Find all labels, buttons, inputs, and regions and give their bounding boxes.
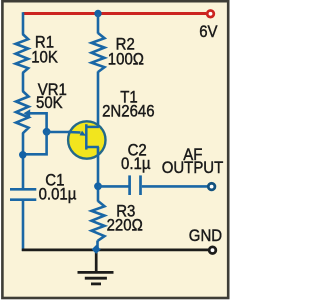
svg-text:OUTPUT: OUTPUT [162, 159, 224, 177]
svg-text:10K: 10K [31, 49, 58, 67]
wire R2 to T1 base2 [97, 72, 100, 128]
wire node to C2 [98, 185, 129, 188]
wire supply rail to R2 [97, 14, 100, 34]
transistor T1 base1 lead [86, 146, 99, 149]
wire VR1 wiper to emitter node [30, 113, 47, 132]
wire R1 to VR1 [22, 73, 25, 92]
transistor T1 base bar [85, 124, 88, 149]
wire ground rail [22, 248, 208, 251]
terminal 6V [207, 11, 214, 18]
junction emitter node [43, 128, 51, 136]
svg-text:0.01µ: 0.01µ [39, 186, 77, 204]
svg-text:2N2646: 2N2646 [102, 103, 155, 121]
capacitor C1 [10, 188, 36, 191]
wire supply rail to R1 [22, 12, 25, 34]
terminal AF OUTPUT [208, 183, 215, 190]
junction ground node [92, 245, 101, 254]
capacitor C2 [128, 175, 131, 195]
junction C2 tap node [94, 182, 102, 190]
wire C1 bottom to ground rail [22, 201, 25, 251]
wire C2 to AF output terminal [142, 185, 207, 188]
wire R3 to ground rail [96, 241, 99, 251]
svg-text:220Ω: 220Ω [107, 217, 143, 235]
terminal GND [209, 247, 216, 254]
junction on supply rail [94, 10, 101, 17]
junction C1 node [19, 151, 27, 159]
transistor T1 body [68, 121, 105, 158]
resistor R1 [16, 34, 29, 73]
wire emitter node down-left to C1 node [23, 132, 47, 155]
svg-text:100Ω: 100Ω [108, 51, 144, 69]
ground [95, 250, 98, 273]
transistor T1 emitter arrow [80, 131, 86, 136]
svg-text:GND: GND [189, 227, 222, 245]
svg-text:6V: 6V [199, 23, 218, 41]
wire VR1 bottom to C1 [22, 133, 25, 188]
resistor R2 [92, 33, 105, 72]
potentiometer VR1 [16, 91, 29, 134]
wire 6V supply rail [23, 12, 206, 15]
transistor T1 base2 lead [86, 126, 99, 129]
transistor T1 emitter lead [68, 131, 81, 134]
resistor R3 [92, 201, 105, 241]
svg-text:0.1µ: 0.1µ [121, 155, 150, 173]
svg-text:50K: 50K [36, 94, 63, 112]
VR1 wiper arrow [24, 109, 31, 117]
wire emitter node to T1 emitter [47, 131, 72, 134]
wire T1 base1 to R3 [97, 147, 100, 202]
